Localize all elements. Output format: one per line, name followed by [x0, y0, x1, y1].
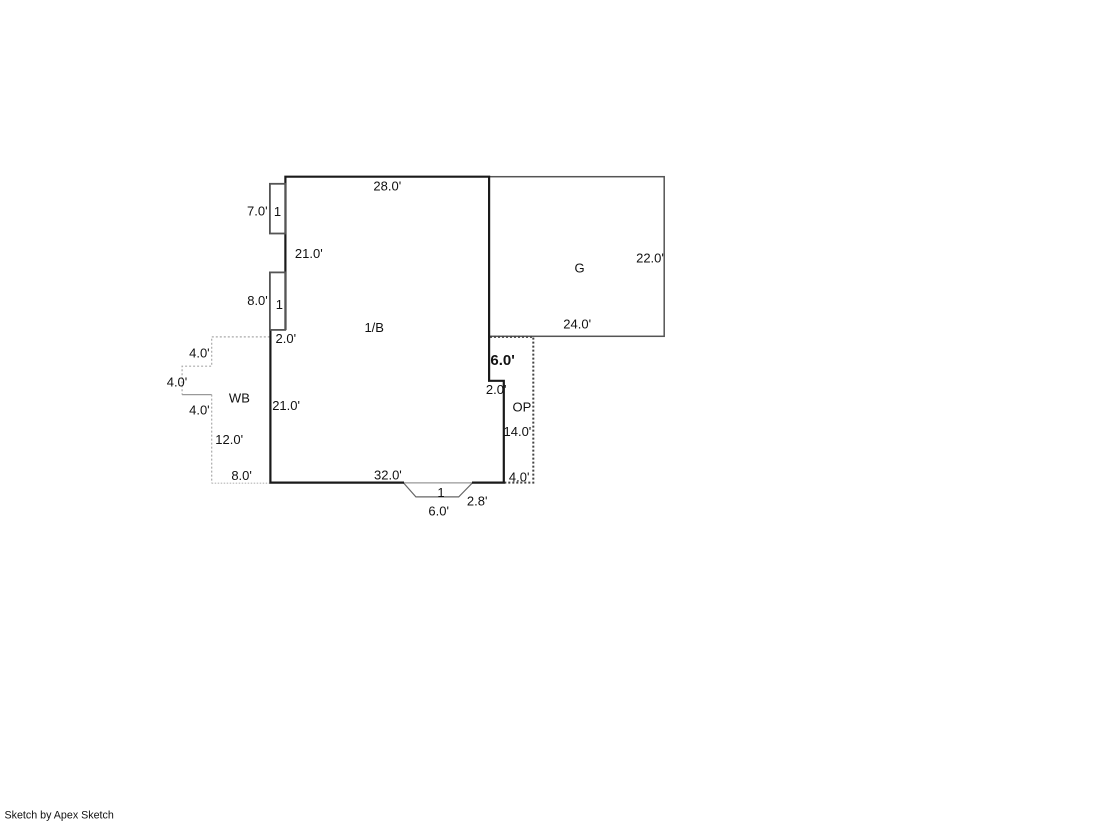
- svg-text:14.0': 14.0': [504, 424, 532, 439]
- svg-text:22.0': 22.0': [636, 251, 664, 266]
- svg-text:7.0': 7.0': [247, 204, 268, 219]
- svg-text:24.0': 24.0': [563, 317, 591, 332]
- svg-text:6.0': 6.0': [428, 504, 449, 519]
- svg-text:1: 1: [274, 204, 281, 219]
- svg-text:21.0': 21.0': [272, 398, 300, 413]
- svg-text:WB: WB: [229, 391, 250, 406]
- svg-text:1: 1: [276, 297, 283, 312]
- svg-text:32.0': 32.0': [374, 468, 402, 483]
- svg-text:12.0': 12.0': [215, 432, 243, 447]
- svg-text:6.0': 6.0': [490, 352, 514, 369]
- svg-text:OP: OP: [513, 400, 532, 415]
- svg-text:4.0': 4.0': [509, 470, 530, 485]
- svg-text:Sketch by Apex Sketch: Sketch by Apex Sketch: [5, 810, 114, 821]
- svg-text:21.0': 21.0': [295, 246, 323, 261]
- svg-text:4.0': 4.0': [189, 402, 210, 417]
- svg-text:8.0': 8.0': [247, 293, 268, 308]
- svg-text:G: G: [574, 261, 584, 276]
- svg-text:8.0': 8.0': [231, 468, 252, 483]
- svg-text:4.0': 4.0': [167, 375, 188, 390]
- svg-text:2.0': 2.0': [486, 382, 507, 397]
- svg-text:2.0': 2.0': [276, 331, 297, 346]
- svg-text:1/B: 1/B: [364, 320, 384, 335]
- svg-text:28.0': 28.0': [373, 178, 401, 193]
- svg-text:2.8': 2.8': [467, 494, 488, 509]
- svg-text:4.0': 4.0': [189, 346, 210, 361]
- svg-text:1: 1: [437, 485, 444, 500]
